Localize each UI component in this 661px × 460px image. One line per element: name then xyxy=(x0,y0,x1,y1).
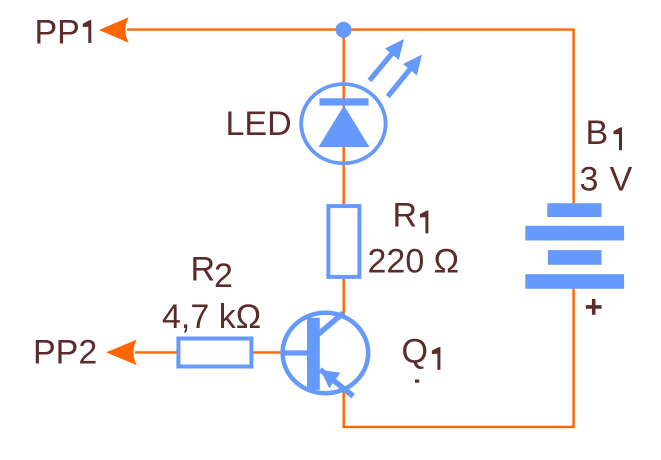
battery B1 plate 2 (long) xyxy=(525,226,624,241)
LED cathode bar xyxy=(320,98,369,105)
battery B1 plate 3 (short) xyxy=(548,250,602,265)
transistor Q1 emitter arrowhead xyxy=(320,370,340,388)
svg-text:220 Ω: 220 Ω xyxy=(368,243,460,281)
label Q1 xyxy=(402,333,441,371)
transistor Q1 base bar xyxy=(307,318,320,390)
svg-text:V: V xyxy=(610,161,633,199)
svg-text:PP2: PP2 xyxy=(33,334,97,372)
transistor Q1 base lead xyxy=(282,350,309,355)
wire base: PP2 arrow to R2 to transistor xyxy=(135,351,290,353)
svg-text:Q: Q xyxy=(402,333,428,371)
LED anode triangle xyxy=(319,106,370,148)
label PP1 xyxy=(35,14,92,52)
LED D1 circle xyxy=(301,84,385,163)
svg-text:2: 2 xyxy=(214,257,233,295)
svg-text:R: R xyxy=(393,197,418,235)
label 220 Ohm xyxy=(368,243,460,281)
label R2 xyxy=(191,251,233,296)
resistor R1 body xyxy=(328,206,359,277)
battery B1 plate 1 (short) xyxy=(547,203,601,217)
label LED xyxy=(226,105,292,143)
label Q1 period mark xyxy=(415,380,419,383)
label R1 xyxy=(393,197,429,235)
wire center vertical, bottom horizontal and right vertical from battery xyxy=(344,30,574,427)
label B1 xyxy=(586,114,623,152)
transistor Q1 emitter lead xyxy=(320,370,353,397)
PP2 arrow xyxy=(106,340,137,366)
svg-text:4,7 kΩ: 4,7 kΩ xyxy=(162,298,261,336)
wire top horizontal + right vertical to battery xyxy=(127,30,574,204)
LED light arrow 2 xyxy=(388,55,422,97)
LED light arrow 1 xyxy=(370,39,405,81)
transistor Q1 collector lead xyxy=(318,313,343,335)
svg-text:3: 3 xyxy=(580,161,599,199)
label 3 V xyxy=(580,161,633,199)
battery B1 plate 4 (long) xyxy=(525,274,624,289)
svg-text:R: R xyxy=(191,251,216,289)
label 4,7 kOhm xyxy=(162,298,261,336)
node junction dot xyxy=(336,22,352,38)
label PP2 xyxy=(33,334,97,372)
resistor R2 body xyxy=(178,339,251,367)
transistor Q1 circle xyxy=(283,313,369,393)
PP1 arrow xyxy=(99,17,129,43)
svg-text:LED: LED xyxy=(226,105,292,143)
battery plus sign xyxy=(586,299,602,315)
svg-text:PP: PP xyxy=(35,14,80,52)
svg-text:B: B xyxy=(586,114,609,152)
